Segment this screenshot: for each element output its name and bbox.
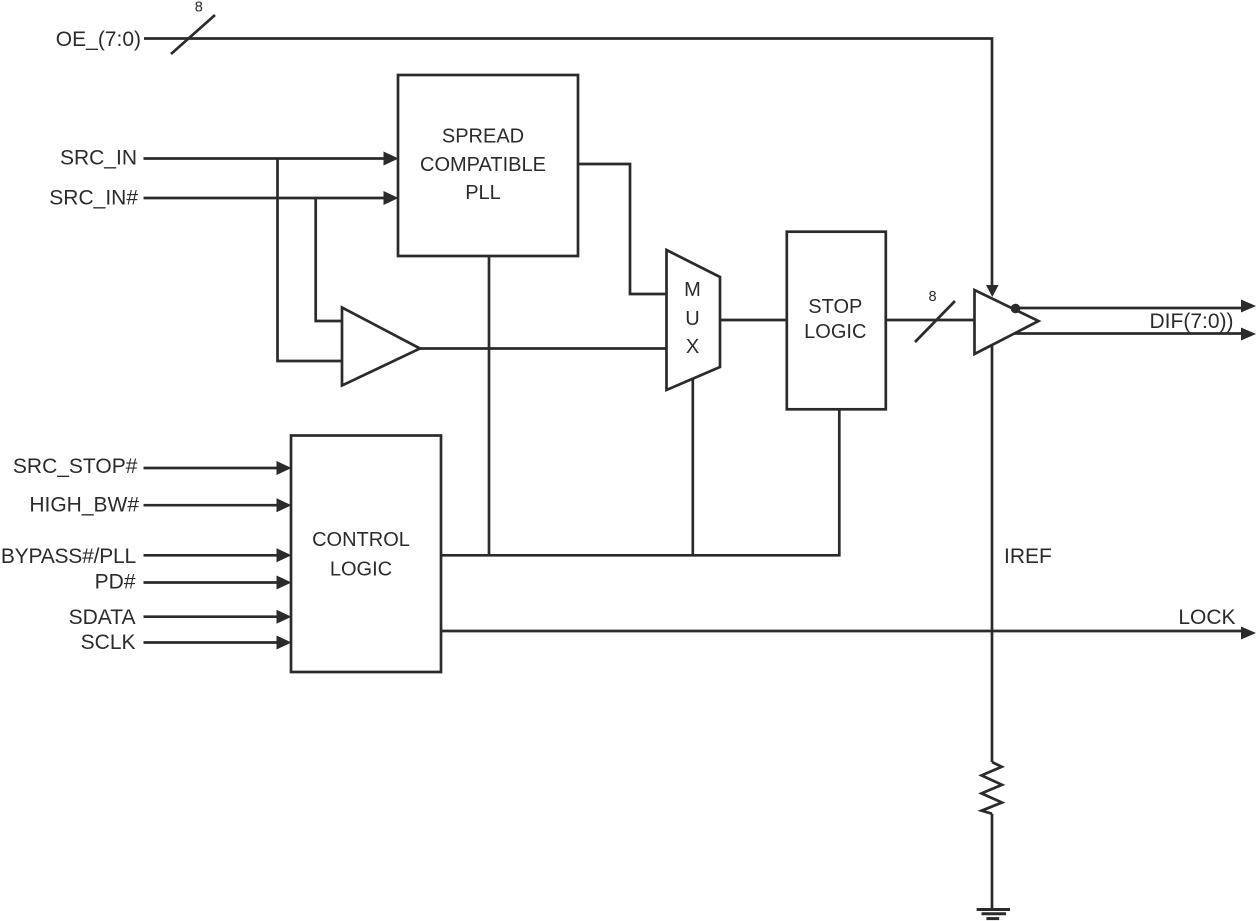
svg-text:SRC_STOP#: SRC_STOP#	[13, 455, 138, 478]
svg-text:LOGIC: LOGIC	[804, 321, 866, 343]
svg-text:SPREAD: SPREAD	[442, 126, 524, 148]
svg-text:SDATA: SDATA	[69, 606, 136, 629]
svg-text:U: U	[685, 308, 699, 330]
svg-text:PLL: PLL	[465, 182, 501, 204]
svg-text:LOGIC: LOGIC	[330, 559, 392, 581]
svg-text:8: 8	[195, 0, 203, 15]
svg-text:OE_(7:0): OE_(7:0)	[56, 28, 141, 51]
svg-text:SCLK: SCLK	[81, 631, 136, 654]
svg-text:LOCK: LOCK	[1178, 606, 1235, 629]
svg-text:STOP: STOP	[808, 296, 862, 318]
svg-text:CONTROL: CONTROL	[312, 529, 410, 551]
svg-text:SRC_IN#: SRC_IN#	[49, 187, 138, 210]
svg-text:COMPATIBLE: COMPATIBLE	[420, 154, 546, 176]
svg-text:IREF: IREF	[1004, 545, 1052, 568]
svg-text:8: 8	[928, 289, 936, 305]
svg-text:SRC_IN: SRC_IN	[60, 147, 137, 170]
svg-text:M: M	[684, 279, 701, 301]
svg-text:X: X	[686, 336, 699, 358]
svg-text:HIGH_BW#: HIGH_BW#	[29, 494, 139, 517]
svg-text:DIF(7:0)): DIF(7:0))	[1150, 310, 1234, 333]
svg-text:BYPASS#/PLL: BYPASS#/PLL	[1, 545, 136, 568]
svg-text:PD#: PD#	[95, 571, 136, 594]
